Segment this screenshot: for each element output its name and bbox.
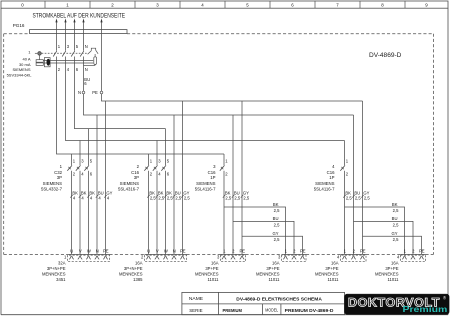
svg-text:PE: PE [360,249,366,254]
socket contact [180,256,184,260]
svg-text:2,5: 2,5 [158,196,164,201]
wire tick [147,195,149,198]
BU branch bus to socket 3b [233,221,294,254]
wire tick [361,195,363,198]
svg-text:16A: 16A [331,261,339,266]
socket contact [411,256,415,260]
wire drop x=353.5 [353,115,355,255]
svg-text:16A: 16A [272,261,280,266]
wire tick [343,195,345,198]
svg-text:GY: GY [391,231,397,236]
RCD contact blade pole 5 [71,51,75,57]
svg-text:1P: 1P [210,175,215,180]
svg-text:11011: 11011 [207,277,219,282]
svg-text:W: W [164,249,168,254]
wire tick [164,195,166,198]
breaker contact blade [144,165,149,170]
svg-text:2,5: 2,5 [274,237,280,242]
svg-text:C16: C16 [131,170,139,175]
svg-text:Premium: Premium [403,305,448,314]
socket contact [283,256,287,260]
breaker contact blade [84,165,89,170]
node N [82,91,85,94]
breaker contact blade [340,165,345,170]
N auxiliary contact bridge [91,48,95,51]
wire tick [232,195,234,198]
wire to socket [156,171,158,255]
svg-text:1P: 1P [329,175,334,180]
svg-text:BK: BK [273,202,279,207]
BK branch bus to socket 4b [345,207,405,255]
svg-text:C32: C32 [54,170,62,175]
socket contact [292,256,296,260]
svg-text:5SL4116-7: 5SL4116-7 [314,186,335,191]
socket 3 11011 [221,253,246,255]
wire tick [104,195,106,198]
RCD contact blade pole 1 [53,51,57,57]
socket contact [163,256,167,260]
socket contact [360,256,364,260]
supply cable arrows (L1 L2 L3 N PE) [56,21,58,33]
test button link [35,52,37,54]
svg-text:2,5: 2,5 [364,196,370,201]
socket contact [172,256,176,260]
svg-text:BK: BK [392,202,398,207]
L3 bus [75,57,166,129]
svg-text:V: V [156,249,159,254]
trip coil [94,57,97,65]
wire tick [181,195,183,198]
N bus [84,94,354,115]
socket 1 3451 [68,253,110,255]
svg-text:3P+PE: 3P+PE [385,266,398,271]
wire tick [70,195,72,198]
socket 4 11011 [341,253,367,255]
wire drop x=148.5 [148,154,150,165]
svg-text:2,5: 2,5 [393,208,399,213]
wire tick [223,195,225,198]
wire to socket [71,171,73,255]
GY branch bus to socket 4b [363,236,422,254]
wire drop x=174 [173,115,175,255]
wire drop x=242 [241,101,243,255]
socket contact [300,256,304,260]
svg-text:N: N [85,67,88,72]
wire drop x=157 [156,141,158,166]
svg-text:3P+N+PE: 3P+N+PE [47,266,66,271]
test resistor b [36,63,43,66]
wire PE down [101,34,103,92]
wire drop x=344.5 [344,141,346,166]
svg-text:SIEMENS: SIEMENS [196,181,215,186]
wire to socket [223,171,225,255]
wire drop x=80 [79,141,81,166]
socket contact [231,256,235,260]
BK branch bus to socket 3b [224,207,286,255]
breaker contact blade [220,165,225,170]
test button [38,52,42,56]
svg-text:MENNEKES: MENNEKES [195,272,219,277]
svg-text:1385: 1385 [133,277,143,282]
RCD contact blade pole N [80,51,84,57]
socket contact [240,256,244,260]
svg-text:5SL4316-7: 5SL4316-7 [118,186,140,191]
wire to socket [79,171,81,255]
socket 3 11011 [282,253,307,255]
svg-text:GY: GY [272,231,278,236]
svg-text:16A: 16A [211,261,219,266]
svg-text:MENNEKES: MENNEKES [256,272,280,277]
svg-text:MENNEKES: MENNEKES [42,272,66,277]
wire drop x=105.5 [105,101,107,255]
svg-text:2,5: 2,5 [274,222,280,227]
svg-text:PE: PE [240,249,246,254]
wire drop x=97 [96,115,98,255]
svg-text:3P: 3P [57,175,62,180]
logo DOKTORVOLT Premium [345,294,450,314]
wire tick [352,195,354,198]
socket contact [146,256,150,260]
svg-text:PE: PE [103,249,109,254]
wire drop x=182.5 [182,101,184,255]
test resistor a [36,60,43,63]
svg-text:PE: PE [419,249,425,254]
wire drop x=233 [232,115,234,255]
svg-text:PREMIUM: PREMIUM [223,308,243,313]
svg-text:NAME: NAME [189,296,203,301]
svg-text:PE: PE [180,249,186,254]
svg-text:U: U [70,249,73,254]
ruler ticks and numbers [44,1,46,8]
svg-text:5SL4116-7: 5SL4116-7 [195,186,216,191]
svg-text:2,5: 2,5 [346,196,352,201]
svg-text:32A: 32A [58,261,66,266]
svg-text:11011: 11011 [327,277,339,282]
wire RCD pole 3 top [65,34,67,51]
svg-text:3P+PE: 3P+PE [325,266,338,271]
svg-text:N: N [173,249,176,254]
svg-text:2,5: 2,5 [393,237,399,242]
wire tick [79,195,81,198]
socket contact [103,256,107,260]
svg-text:11011: 11011 [387,277,399,282]
wire to socket [88,171,90,255]
page frame [1,1,448,8]
socket contact [69,256,73,260]
L2 bus [66,57,345,141]
svg-text:3P+PE: 3P+PE [266,266,279,271]
wire drop x=71.5 [71,154,73,165]
wire trip coil to N pole [84,64,96,66]
L1 bus [57,57,225,155]
wire tick [96,195,98,198]
svg-text:SIEMENS: SIEMENS [315,181,334,186]
CT secondary wire a [43,59,93,61]
svg-text:C16: C16 [327,170,335,175]
svg-text:2,5: 2,5 [234,196,240,201]
breaker contact blade [76,165,81,170]
breaker contact blade [67,165,72,170]
svg-text:N: N [96,249,99,254]
svg-text:SERIE: SERIE [189,308,202,313]
current transformer winding [44,58,50,67]
current transformer core [47,59,51,66]
svg-text:3P+PE: 3P+PE [205,266,218,271]
GY branch bus to socket 3b [242,236,303,254]
svg-text:N: N [78,90,81,95]
svg-text:C16: C16 [208,170,216,175]
breaker contact blade [161,165,166,170]
svg-text:2,5: 2,5 [243,196,249,201]
PE bus [102,94,363,101]
svg-text:3451: 3451 [56,277,66,282]
title block [182,292,345,314]
socket contact [342,256,346,260]
svg-text:MENNEKES: MENNEKES [375,272,399,277]
svg-text:SIEMENS: SIEMENS [120,181,139,186]
svg-text:PREMIUM DV-4869-D: PREMIUM DV-4869-D [285,308,335,313]
svg-text:W: W [87,249,91,254]
svg-text:DV-4869-D ELEKTRISCHES SCHEMA: DV-4869-D ELEKTRISCHES SCHEMA [236,296,322,301]
socket contact [155,256,159,260]
wire drop x=88.5 [88,129,90,166]
mechanical linkage [42,52,88,54]
socket 2 1385 [145,253,187,255]
socket contact [86,256,90,260]
svg-text:BU: BU [392,216,398,221]
svg-text:2,5: 2,5 [355,196,361,201]
socket contact [402,256,406,260]
BU branch bus to socket 4b [354,221,414,254]
socket contact [78,256,82,260]
wire tick [156,195,158,198]
socket contact [222,256,226,260]
wire drop x=224 [223,154,225,165]
svg-text:SIEMENS: SIEMENS [43,181,62,186]
svg-text:16A: 16A [135,261,143,266]
svg-text:PE: PE [300,249,306,254]
socket contact [351,256,355,260]
cable gland plate [30,30,128,34]
RCD contact blade pole 3 [62,51,66,57]
wire drop x=165.5 [165,129,167,166]
wire to socket [148,171,150,255]
svg-text:40 A: 40 A [22,57,30,62]
enclosure dashed border [4,33,30,35]
svg-text:N: N [85,44,88,49]
svg-text:2,5: 2,5 [225,196,231,201]
wire drop x=362.5 [362,101,364,255]
wire to socket [344,171,346,255]
svg-text:2,5: 2,5 [184,196,190,201]
breaker contact blade [153,165,158,170]
svg-text:SIEMENS: SIEMENS [12,67,30,72]
socket 4 11011 [401,253,426,255]
svg-text:U: U [147,249,150,254]
wire RCD pole 5 top [74,34,76,51]
svg-text:11011: 11011 [268,277,280,282]
svg-text:3P: 3P [134,175,139,180]
svg-text:PE: PE [92,90,98,95]
svg-text:2,5: 2,5 [150,196,156,201]
svg-text:DV-4869-D: DV-4869-D [369,52,402,59]
svg-text:MENNEKES: MENNEKES [119,272,143,277]
CT secondary wire b [43,62,93,64]
svg-text:BU: BU [273,216,279,221]
wire RCD pole N top [83,34,85,51]
socket contact [419,256,423,260]
wire tick [241,195,243,198]
N auxiliary contact blade b [96,50,98,54]
svg-text:2,5: 2,5 [274,208,280,213]
svg-text:2,5: 2,5 [393,222,399,227]
svg-text:2,5: 2,5 [167,196,173,201]
svg-text:5SL4332-7: 5SL4332-7 [41,186,63,191]
wire RCD pole 1 top [56,34,58,51]
svg-text:5SV3344-6KL: 5SV3344-6KL [7,73,33,78]
socket contact [95,256,99,260]
wire tick [87,195,89,198]
wire N pole down [83,57,85,92]
svg-text:STROMKABEL AUF DER KUNDENSEITE: STROMKABEL AUF DER KUNDENSEITE [33,13,126,20]
svg-text:V: V [79,249,82,254]
node PE [100,91,103,94]
svg-text:PG16: PG16 [13,23,25,28]
svg-text:16A: 16A [391,261,399,266]
N auxiliary contact blade a [88,51,92,55]
svg-text:MENNEKES: MENNEKES [315,272,339,277]
wire to socket [165,171,167,255]
svg-text:MODEL: MODEL [265,308,278,313]
svg-text:2,5: 2,5 [175,196,181,201]
svg-text:3P+N+PE: 3P+N+PE [124,266,143,271]
wire tick [173,195,175,198]
